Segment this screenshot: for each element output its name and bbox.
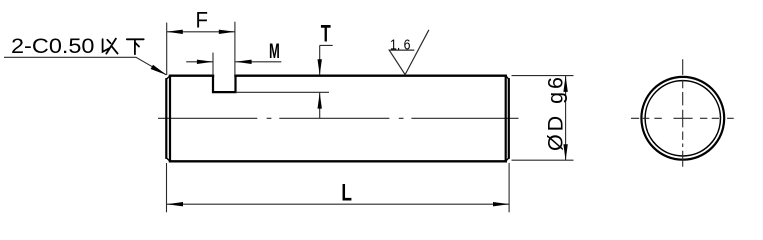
top extension — [512, 75, 574, 77]
F extension right / keyway right ext — [234, 22, 236, 76]
end view horizontal centerline — [631, 117, 734, 119]
L extension right — [508, 163, 510, 212]
dim L — [167, 163, 510, 212]
dim M — [186, 40, 281, 76]
L extension left — [166, 163, 168, 212]
dim line — [565, 76, 567, 160]
shaft outline bottom — [170, 160, 506, 162]
left chamfer corners — [166, 76, 170, 162]
roughness symbol 1.6 — [389, 30, 429, 75]
right chamfer corners — [506, 76, 509, 162]
right chamfer line — [505, 76, 507, 162]
dim T — [318, 21, 333, 119]
T lower arrow — [319, 93, 321, 119]
T tick — [320, 45, 333, 75]
svg-text:F: F — [196, 7, 209, 32]
svg-text:T: T — [321, 21, 331, 48]
shaft outline top — [170, 74, 506, 76]
M dim line left — [186, 61, 213, 63]
dim F — [167, 7, 236, 75]
leader arrow — [151, 65, 167, 75]
svg-text:1. 6: 1. 6 — [390, 36, 411, 53]
F extension left — [166, 23, 168, 75]
L dim line — [167, 203, 509, 205]
end view outer circle — [641, 77, 724, 160]
svg-text:M: M — [269, 40, 280, 63]
leader line — [4, 57, 166, 75]
leader 2-C0.50 — [4, 34, 167, 75]
shaft centerline — [158, 117, 519, 119]
M dim line right — [236, 61, 282, 63]
svg-text:2-C0.50: 2-C0.50 — [11, 34, 95, 58]
end view vertical centerline — [682, 59, 684, 167]
keyway depth line — [236, 91, 330, 93]
keyway left ext — [212, 53, 214, 76]
dim D g6 — [512, 76, 574, 161]
left chamfer line — [169, 76, 171, 162]
F dim line — [167, 31, 235, 33]
bottom extension — [512, 159, 574, 161]
end view chamfer circle — [645, 81, 720, 156]
char 以 — [103, 39, 118, 54]
left end face — [165, 79, 167, 158]
char 下 — [127, 39, 144, 54]
svg-text:L: L — [341, 180, 352, 207]
keyway slot — [213, 76, 236, 92]
right end face — [508, 79, 510, 158]
